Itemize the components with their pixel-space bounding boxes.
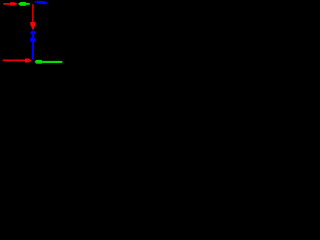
force vector F3: blue arrow pointing right, sloping slightly down (top-right)	[35, 1, 49, 5]
force vector F7: green arrow pointing left (bottom, reaction to F6)	[35, 60, 63, 64]
force vector F6: red arrow pointing right (bottom-left)	[3, 58, 32, 62]
force vector F2: green arrow pointing left (top, reaction to F1)	[18, 2, 30, 6]
force vector F5: blue double-headed arrow pointing up (middle-bottom)	[30, 30, 35, 59]
background	[0, 0, 66, 66]
force vector F1: red arrow pointing right (top-left)	[3, 2, 17, 6]
force vector F4: red arrow pointing down (middle)	[30, 4, 36, 29]
